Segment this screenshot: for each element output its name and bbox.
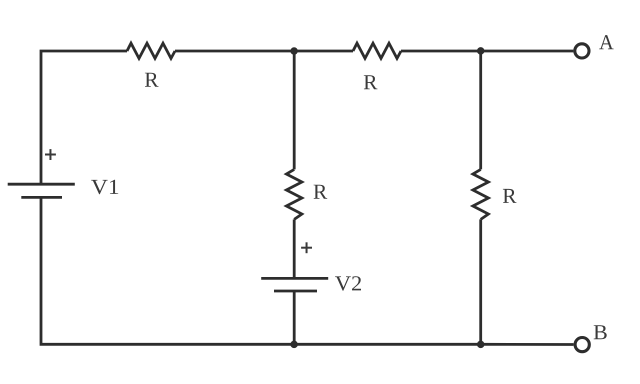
resistor R1 (top-left, horizontal) [127,43,175,58]
plus sign of battery V2 [301,242,312,253]
node N3 junction dot (bottom middle) [290,341,298,349]
wire node N2 down to R4 [479,51,482,169]
terminal A open circle [575,44,589,58]
resistor R3 (middle, vertical) [286,169,302,219]
label R of resistor R2 [364,75,378,89]
wire R4 to bottom node N4 [479,219,482,344]
label B of terminal B [594,325,607,339]
node N2 junction dot (top right) [477,47,485,55]
node N1 junction dot (top middle) [290,47,298,55]
label V2 of battery V2 [335,276,361,290]
wire V2 to bottom node N3 [293,291,296,344]
label A of terminal A [599,35,613,49]
wire top-left segment (V1 top to R1) [41,51,127,184]
wire node N1 down to R3 [293,51,296,169]
resistor R4 (right, vertical) [473,169,489,219]
label V1 of battery V1 [91,180,118,194]
wire node N4 to terminal B [481,343,574,346]
terminal B open circle [575,338,589,352]
wire R2 to node N2 [401,50,481,53]
battery V1 long plate (+) [8,183,75,186]
wire node N2 to terminal A [481,50,574,53]
label R of resistor R3 [314,185,328,199]
node N4 junction dot (bottom right) [477,341,485,349]
resistor R2 (top-right, horizontal) [353,43,401,58]
wire bottom node N3 to node N4 [294,343,481,346]
wire R1 to node N1 [175,50,294,53]
wire node N1 to R2 [294,50,353,53]
plus sign of battery V1 [45,149,56,160]
label R of resistor R1 [145,73,159,87]
wire R3 to battery V2 [293,219,296,278]
battery V1 short plate (-) [21,196,62,199]
label R of resistor R4 [503,189,517,203]
wire V1 bottom to bottom-left corner [41,197,294,344]
battery V2 short plate (-) [274,290,317,293]
battery V2 long plate (+) [261,277,328,280]
